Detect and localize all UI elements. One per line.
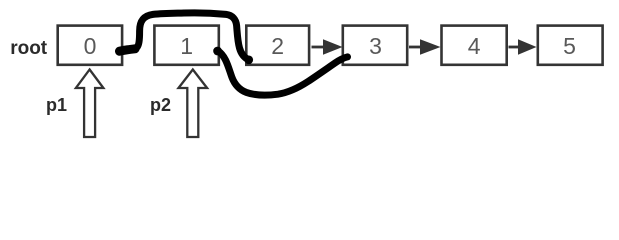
node box 4 xyxy=(442,26,507,65)
hand-drawn marker stroke start blob at node0 next field xyxy=(120,49,136,51)
link arrow node4 to node5 xyxy=(509,39,537,54)
svg-text:p1: p1 xyxy=(46,95,67,115)
blob at sweep stroke start near node 1 right edge xyxy=(213,47,222,56)
svg-text:3: 3 xyxy=(369,33,382,59)
p2 up-arrow pointer to node 1 xyxy=(179,70,208,138)
svg-text:0: 0 xyxy=(84,33,97,59)
svg-text:2: 2 xyxy=(271,33,284,59)
svg-text:5: 5 xyxy=(563,33,576,59)
svg-text:root: root xyxy=(10,38,48,59)
node box 1 xyxy=(154,26,218,65)
node box 3 xyxy=(343,26,407,65)
node box 2 xyxy=(246,26,309,65)
blob at arc hook end on node 2 edge xyxy=(245,56,254,65)
node box 5 xyxy=(538,26,603,65)
svg-text:4: 4 xyxy=(468,33,481,59)
svg-text:p2: p2 xyxy=(150,95,171,115)
link arrow node3 to node4 xyxy=(409,39,441,54)
node box 0 xyxy=(58,26,122,65)
hand-drawn marker stroke from node 1 sweeping under node 2 to node 3 xyxy=(218,51,348,95)
link arrow node2 to node3 xyxy=(312,39,343,54)
svg-text:1: 1 xyxy=(180,33,193,59)
hand-drawn marker arc from node0 over node 1 hooking into node 2 left edge xyxy=(135,13,249,60)
p1 up-arrow pointer to node 0 xyxy=(76,70,104,138)
